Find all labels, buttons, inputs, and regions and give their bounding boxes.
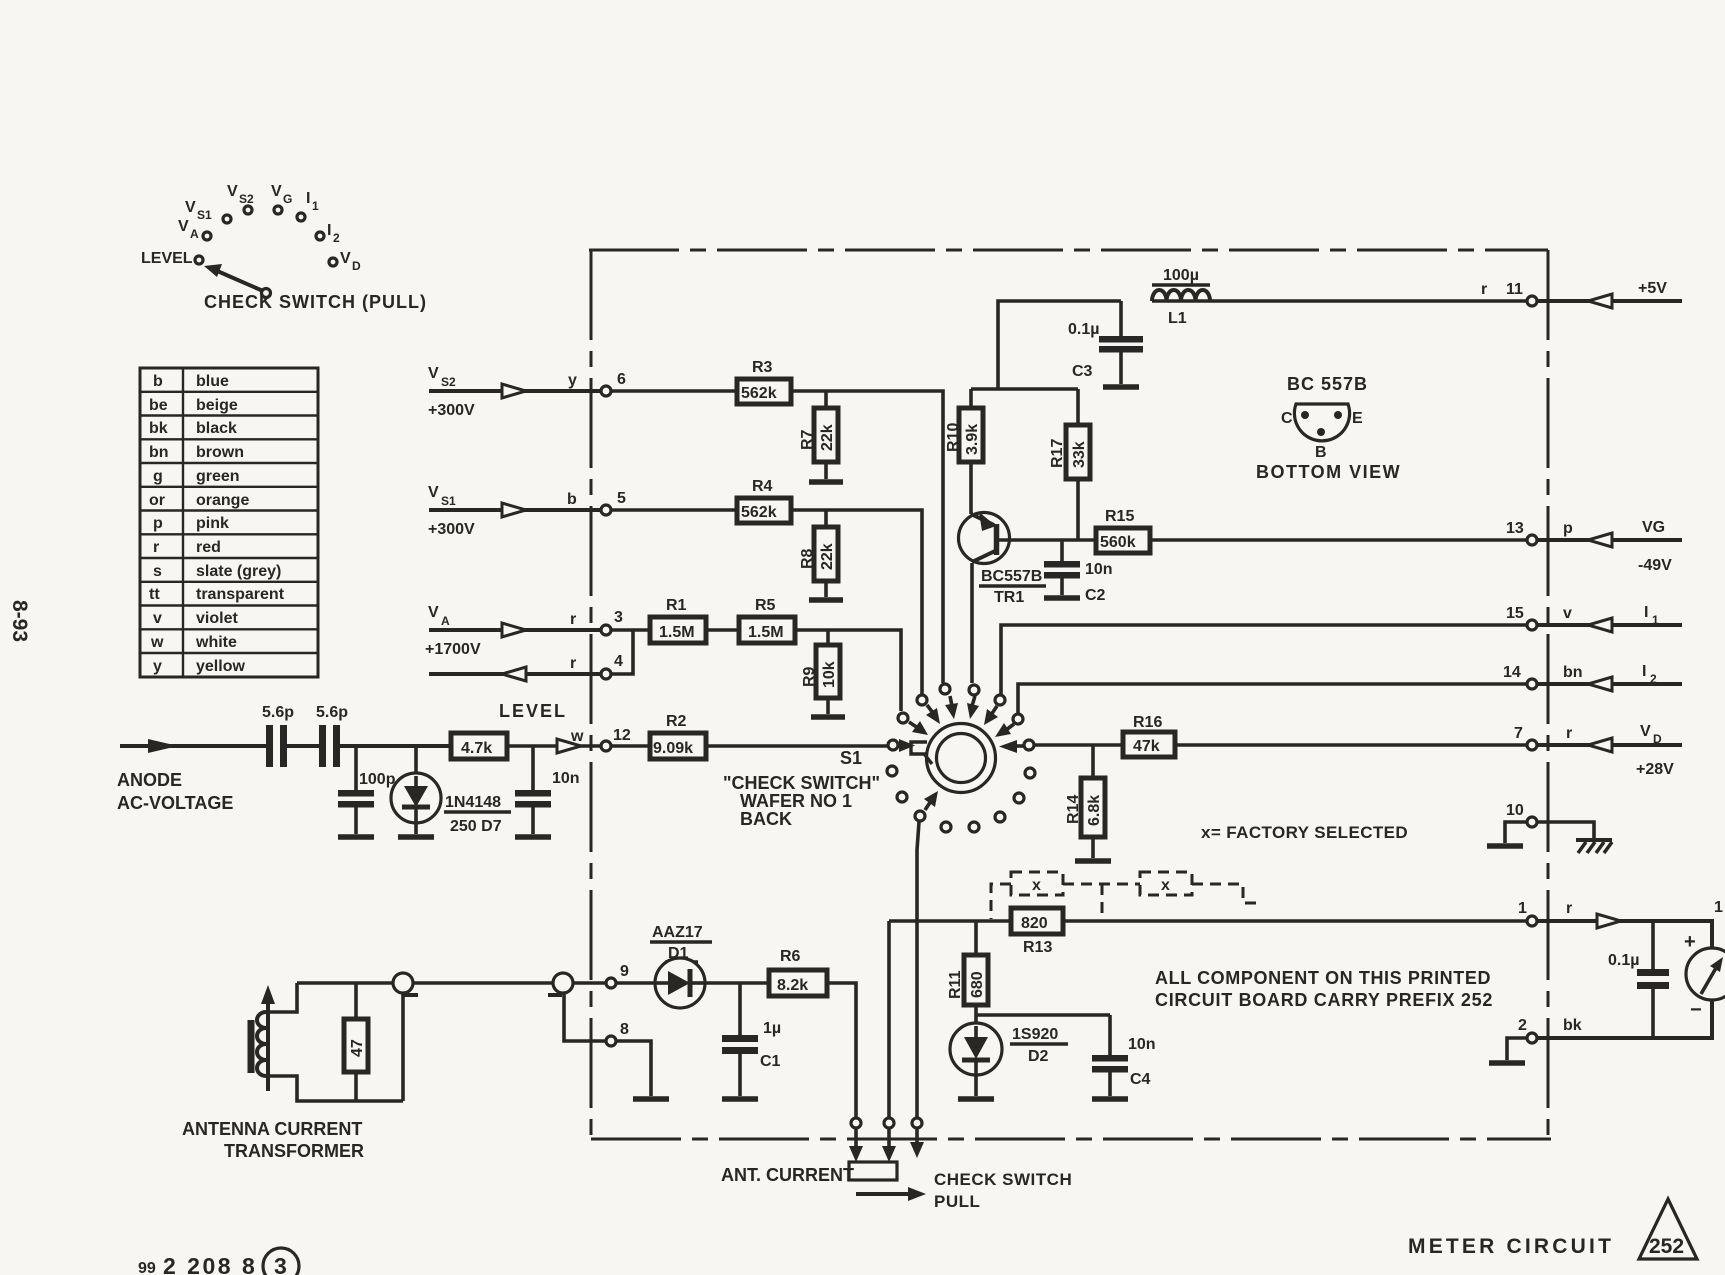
wire 5.6p to 4.7k [340, 744, 451, 748]
node 2 ground [1489, 1038, 1526, 1063]
wire VA input [429, 628, 600, 632]
svg-text:x: x [1032, 877, 1041, 894]
svg-text:14: 14 [1503, 664, 1521, 681]
resistor 4.7k [451, 733, 507, 759]
ground below R14 [1075, 858, 1111, 864]
wire I2 line to switch [1018, 684, 1526, 713]
svg-text:BOTTOM VIEW: BOTTOM VIEW [1256, 462, 1401, 482]
node 1 [1518, 900, 1572, 926]
svg-text:BC557B: BC557B [981, 568, 1042, 585]
capacitor 10n (level) [515, 746, 580, 834]
svg-text:v: v [153, 610, 162, 627]
svg-text:4.7k: 4.7k [461, 740, 492, 757]
S1 contact to ant current switch [915, 791, 938, 821]
svg-text:−: − [1690, 999, 1702, 1021]
resistor R11 680 [947, 921, 988, 1023]
capacitor C3 0.1u [1068, 301, 1143, 384]
svg-text:8.2k: 8.2k [777, 977, 808, 994]
ANTENNA CURRENT TRANSFORMER label [182, 1119, 364, 1161]
svg-text:3: 3 [274, 1253, 287, 1275]
svg-text:A: A [441, 614, 450, 628]
svg-text:562k: 562k [741, 385, 777, 402]
svg-text:p: p [153, 515, 163, 532]
svg-text:D: D [1653, 732, 1662, 746]
input VA +1700V label [425, 604, 481, 658]
antenna transformer arrow [261, 985, 275, 1091]
svg-text:V: V [185, 199, 196, 216]
ANODE AC-VOLTAGE label [117, 770, 233, 813]
svg-text:CHECK SWITCH (PULL): CHECK SWITCH (PULL) [204, 292, 427, 312]
svg-text:252: 252 [1649, 1235, 1684, 1258]
anode AC voltage input wire [120, 744, 267, 748]
I1 input arrow [1538, 604, 1682, 632]
resistor R10 3.9k [945, 389, 983, 514]
wire 4.7k to arrow [507, 744, 600, 748]
wire node8 to ground [617, 1041, 651, 1096]
S1 unused contacts [887, 766, 1035, 832]
ground below 10n [515, 834, 551, 840]
svg-text:bn: bn [1563, 664, 1583, 681]
S1 contact I2 (pin14 net) [995, 714, 1023, 737]
svg-text:560k: 560k [1100, 534, 1136, 551]
svg-text:V: V [271, 183, 282, 200]
svg-text:black: black [196, 420, 237, 437]
svg-text:PULL: PULL [934, 1192, 980, 1211]
svg-text:blue: blue [196, 373, 229, 390]
node 9 [606, 963, 629, 988]
svg-text:R2: R2 [666, 713, 687, 730]
svg-text:1: 1 [1518, 900, 1527, 917]
S1 contact VA (pin3 net) [898, 713, 928, 735]
svg-text:1: 1 [312, 199, 319, 213]
svg-text:g: g [153, 468, 163, 485]
ground below C4 [1092, 1096, 1128, 1102]
+5V rail wire with corner [971, 301, 1526, 389]
wire D2 top to C4 [976, 1013, 1110, 1017]
svg-text:13: 13 [1506, 520, 1524, 537]
arrow pin4 output left [502, 667, 526, 681]
svg-text:TRANSFORMER: TRANSFORMER [224, 1141, 364, 1161]
svg-text:L1: L1 [1168, 310, 1187, 327]
arrow VS2 input [502, 384, 526, 398]
diode D7 1N4148 [391, 746, 511, 835]
page marker 8-93 [8, 600, 31, 642]
svg-text:+5V: +5V [1638, 280, 1667, 297]
node 6 [601, 371, 626, 396]
ground below C1 [722, 1096, 758, 1102]
svg-text:7: 7 [1514, 725, 1523, 742]
svg-text:BACK: BACK [740, 809, 792, 829]
svg-text:4: 4 [614, 653, 623, 670]
resistor R13 820 [1011, 908, 1063, 956]
svg-text:r: r [570, 611, 576, 628]
svg-text:r: r [1481, 281, 1487, 298]
svg-text:E: E [1352, 410, 1363, 427]
resistor R7 22k [799, 391, 838, 479]
svg-text:C2: C2 [1085, 587, 1106, 604]
bushing circle 1 [393, 973, 418, 1101]
anode input filled arrow [148, 739, 178, 753]
svg-text:V: V [1640, 723, 1651, 740]
VG input arrow [1538, 519, 1682, 574]
svg-text:ANTENNA CURRENT: ANTENNA CURRENT [182, 1119, 362, 1139]
svg-text:I: I [306, 190, 310, 207]
svg-text:b: b [567, 491, 577, 508]
wire S1 contact down to pull switch [917, 822, 919, 1117]
svg-text:R15: R15 [1105, 508, 1134, 525]
svg-text:x= FACTORY SELECTED: x= FACTORY SELECTED [1201, 823, 1408, 842]
node 13 [1506, 520, 1573, 545]
wire label y [568, 372, 577, 389]
svg-text:I: I [1644, 604, 1648, 621]
svg-text:tt: tt [149, 586, 160, 603]
svg-text:+28V: +28V [1636, 761, 1674, 778]
wire node10 right ground [1538, 822, 1594, 838]
ground below node8 wire [633, 1096, 669, 1102]
svg-text:11: 11 [1506, 281, 1523, 298]
svg-text:100µ: 100µ [1163, 267, 1199, 284]
svg-text:10n: 10n [1085, 561, 1113, 578]
svg-text:s: s [153, 563, 162, 580]
resistor R6 8.2k [769, 948, 827, 996]
S1 contact VS2 (pin6 net) [940, 684, 958, 719]
node 11 [1481, 281, 1537, 306]
node 7 [1514, 725, 1572, 750]
input VS1 +300V label [428, 484, 475, 538]
pull direction arrow [856, 1187, 926, 1201]
ground below R7 [809, 479, 843, 485]
svg-text:S1: S1 [197, 208, 212, 222]
svg-text:CHECK SWITCH: CHECK SWITCH [934, 1170, 1072, 1189]
wire node10 left ground [1505, 822, 1526, 843]
svg-text:WAFER NO 1: WAFER NO 1 [740, 791, 852, 811]
svg-text:10: 10 [1506, 802, 1524, 819]
svg-text:C: C [1281, 410, 1293, 427]
svg-text:8: 8 [620, 1021, 629, 1038]
antenna transformer winding [257, 983, 403, 1101]
ground below R8 [809, 597, 843, 603]
wire R16 to node 7 [1175, 743, 1526, 747]
node 3 [601, 609, 623, 635]
svg-text:R13: R13 [1023, 939, 1052, 956]
sheet number 99 2 208 8(3) [138, 1248, 299, 1275]
svg-text:C3: C3 [1072, 363, 1093, 380]
svg-text:1µ: 1µ [763, 1020, 781, 1037]
svg-text:-49V: -49V [1638, 557, 1672, 574]
svg-text:V: V [428, 484, 439, 501]
svg-text:AC-VOLTAGE: AC-VOLTAGE [117, 793, 233, 813]
wire node6 to R3 [612, 389, 737, 393]
wire TR1 collector to switch contact [970, 563, 974, 683]
svg-text:100p: 100p [359, 771, 396, 788]
chassis ground right of node10 [1576, 840, 1612, 853]
METER CIRCUIT title [1408, 1235, 1614, 1258]
svg-text:be: be [149, 397, 168, 414]
svg-text:R11: R11 [947, 970, 964, 999]
wire between 5.6p caps [287, 744, 320, 748]
meter M [1684, 899, 1725, 1021]
svg-text:33k: 33k [1071, 441, 1088, 468]
S1 contact VS1 (pin5 net) [917, 695, 940, 724]
svg-text:R5: R5 [755, 597, 776, 614]
resistor R4 562k [737, 478, 791, 523]
svg-text:2 208 8: 2 208 8 [163, 1253, 257, 1275]
svg-text:red: red [196, 539, 221, 556]
svg-text:+: + [1684, 931, 1696, 953]
capacitor 5.6p first [262, 704, 294, 767]
arrow VS1 input [502, 503, 526, 517]
svg-text:R1: R1 [666, 597, 687, 614]
svg-text:b: b [153, 373, 163, 390]
svg-text:V: V [428, 604, 439, 621]
svg-text:TR1: TR1 [994, 589, 1024, 606]
x factory selected note [1201, 823, 1408, 842]
svg-text:V: V [178, 218, 189, 235]
wire R6 to pull switch [827, 983, 856, 1117]
wire R1 to R5 [706, 628, 739, 632]
capacitor 100p [338, 746, 396, 834]
resistor R3 562k [737, 359, 791, 404]
svg-text:LEVEL: LEVEL [141, 250, 193, 267]
svg-text:2: 2 [333, 231, 340, 245]
svg-text:562k: 562k [741, 504, 777, 521]
ground below C2 [1044, 595, 1080, 601]
svg-text:w: w [570, 728, 584, 745]
svg-text:v: v [1563, 605, 1572, 622]
wire I1 line to switch [1001, 625, 1526, 694]
node 15 [1506, 605, 1572, 630]
svg-text:680: 680 [969, 971, 986, 998]
svg-text:orange: orange [196, 492, 249, 509]
wire VS1 input [429, 508, 600, 512]
svg-text:I: I [327, 222, 331, 239]
svg-text:820: 820 [1021, 915, 1048, 932]
svg-text:5.6p: 5.6p [316, 704, 348, 721]
svg-text:5.6p: 5.6p [262, 704, 294, 721]
svg-text:yellow: yellow [196, 658, 245, 675]
svg-text:ALL COMPONENT ON THIS PRINTED: ALL COMPONENT ON THIS PRINTED [1155, 968, 1491, 988]
diode D1 AAZ17 [650, 924, 712, 1008]
svg-text:beige: beige [196, 397, 238, 414]
resistor 47 [344, 983, 368, 1101]
svg-text:12: 12 [613, 727, 631, 744]
check switch position diagram: dots [195, 206, 337, 266]
resistor R1 1.5M [650, 597, 706, 643]
svg-text:1: 1 [1714, 899, 1723, 916]
svg-text:green: green [196, 468, 240, 485]
rotary switch S1 rotor [899, 724, 1025, 793]
svg-text:LEVEL: LEVEL [499, 701, 567, 721]
svg-text:22k: 22k [819, 424, 836, 451]
svg-text:y: y [568, 372, 577, 389]
wire R13 to node 1 [1063, 919, 1526, 923]
wire label w [570, 728, 584, 745]
svg-text:2: 2 [1650, 672, 1657, 686]
svg-text:R7: R7 [799, 429, 816, 450]
svg-text:B: B [1315, 444, 1327, 461]
svg-text:VG: VG [1642, 519, 1665, 536]
wire R3 to switch corner [791, 391, 943, 683]
wire switch output to R16 [1035, 743, 1123, 747]
svg-text:8-93: 8-93 [8, 600, 31, 642]
svg-text:R9: R9 [801, 666, 818, 687]
svg-text:3: 3 [614, 609, 623, 626]
wire label r (pin3) [570, 611, 576, 628]
wire node2 to meter [1538, 1000, 1712, 1038]
drawing number triangle 252 [1639, 1199, 1697, 1259]
svg-text:bn: bn [149, 444, 169, 461]
svg-text:6: 6 [617, 371, 626, 388]
wire label r (pin4) [570, 655, 576, 672]
svg-text:ANT. CURRENT: ANT. CURRENT [721, 1165, 854, 1185]
svg-text:0.1µ: 0.1µ [1608, 952, 1639, 969]
resistor R5 1.5M [739, 597, 795, 643]
svg-text:+300V: +300V [428, 521, 475, 538]
svg-text:250 D7: 250 D7 [450, 818, 502, 835]
wire VS2 input [429, 389, 600, 393]
S1 switch labels [723, 748, 880, 829]
svg-text:1.5M: 1.5M [748, 624, 784, 641]
capacitor C1 1u [722, 983, 781, 1096]
svg-text:S1: S1 [840, 748, 862, 768]
svg-text:r: r [570, 655, 576, 672]
svg-text:R8: R8 [799, 548, 816, 569]
wire R2 to switch contact [706, 744, 887, 748]
ANT CURRENT label [721, 1165, 854, 1185]
ground below C3 [1103, 384, 1139, 390]
svg-text:+300V: +300V [428, 402, 475, 419]
I2 input arrow [1538, 663, 1682, 691]
svg-text:BC 557B: BC 557B [1287, 374, 1368, 394]
svg-text:D2: D2 [1028, 1048, 1049, 1065]
check switch position labels [141, 183, 427, 312]
S1 contact TR1 collector [967, 685, 979, 719]
arrow VA input [502, 623, 526, 637]
bushing circle 2 [548, 973, 605, 1041]
dashed wires around factory boxes [991, 884, 1262, 919]
svg-text:R16: R16 [1133, 714, 1162, 731]
resistor R2 9.09k [650, 713, 706, 759]
svg-text:pink: pink [196, 515, 229, 532]
svg-text:transparent: transparent [196, 586, 285, 603]
CHECK SWITCH PULL label [934, 1170, 1072, 1211]
svg-text:C4: C4 [1130, 1071, 1151, 1088]
svg-text:r: r [1566, 900, 1572, 917]
svg-text:V: V [428, 365, 439, 382]
colour code legend table [140, 368, 318, 677]
wire R5 to switch corner [795, 630, 901, 711]
svg-text:R3: R3 [752, 359, 773, 376]
svg-text:1N4148: 1N4148 [445, 794, 501, 811]
svg-text:violet: violet [196, 610, 238, 627]
svg-text:9.09k: 9.09k [653, 740, 693, 757]
ground below R9 [811, 714, 845, 720]
svg-text:y: y [153, 658, 162, 675]
svg-text:15: 15 [1506, 605, 1524, 622]
capacitor C4 10n [1092, 1015, 1156, 1096]
svg-text:R14: R14 [1065, 795, 1082, 824]
arrow level to pin12 [557, 739, 581, 753]
S1 contact LEVEL (pin12 net) [888, 740, 898, 750]
wire TR1 base to R15 [997, 538, 1096, 542]
node 12 [601, 727, 631, 751]
node 8 [606, 1021, 629, 1046]
antenna transformer core [248, 1020, 255, 1073]
wire R4 to switch corner [791, 510, 922, 694]
svg-text:3.9k: 3.9k [964, 424, 981, 455]
svg-text:R6: R6 [780, 948, 801, 965]
svg-text:w: w [150, 634, 164, 651]
svg-text:1.5M: 1.5M [659, 624, 695, 641]
wire pin1 line left segment [889, 919, 1011, 923]
input VS2 +300V label [428, 365, 475, 419]
svg-text:10n: 10n [552, 770, 580, 787]
svg-text:white: white [195, 634, 237, 651]
capacitor 0.1u meter [1608, 921, 1669, 1038]
check switch rotor arrow [204, 264, 271, 298]
+5V input arrow [1538, 280, 1682, 308]
svg-text:or: or [149, 492, 165, 509]
svg-text:r: r [153, 539, 159, 556]
inductor L1 100u [1152, 267, 1210, 327]
LEVEL label [499, 701, 567, 721]
svg-text:47k: 47k [1133, 738, 1160, 755]
svg-text:p: p [1563, 520, 1573, 537]
svg-text:I: I [1642, 663, 1646, 680]
wire node4 joins node3 line [612, 630, 633, 674]
transistor TR1 BC557B [959, 512, 1047, 606]
node 4 [601, 653, 623, 679]
ground left of node10 [1487, 843, 1523, 849]
resistor R9 10k [801, 630, 840, 714]
PCB border bottom [591, 1138, 1551, 1141]
svg-text:A: A [190, 227, 199, 241]
node 2 [1518, 1017, 1582, 1043]
wire meter top [1621, 921, 1712, 948]
resistor R16 47k [1123, 714, 1175, 757]
dashed factory box 2 [1140, 872, 1192, 895]
ground below 100p [338, 834, 374, 840]
resistor R8 22k [799, 510, 838, 597]
PCB border right [1547, 250, 1550, 1139]
svg-text:2: 2 [1518, 1017, 1527, 1034]
svg-text:5: 5 [617, 490, 626, 507]
svg-text:CIRCUIT BOARD CARRY PREFIX 252: CIRCUIT BOARD CARRY PREFIX 252 [1155, 990, 1493, 1010]
node 5 [601, 490, 626, 515]
node 14 [1503, 664, 1583, 689]
BC557B bottom view [1256, 374, 1401, 482]
node 10 [1506, 802, 1537, 827]
svg-text:R4: R4 [752, 478, 773, 495]
wire label b [567, 491, 577, 508]
svg-text:brown: brown [196, 444, 244, 461]
svg-text:slate (grey): slate (grey) [196, 563, 281, 580]
svg-text:99: 99 [138, 1260, 156, 1275]
PCB border top [589, 249, 1548, 252]
wire node5 to R4 [612, 508, 737, 512]
wire pin4 output [429, 672, 600, 676]
svg-text:R17: R17 [1049, 439, 1066, 468]
resistor R17 33k [1049, 389, 1090, 540]
svg-text:x: x [1161, 877, 1170, 894]
svg-text:C1: C1 [760, 1053, 781, 1070]
svg-text:"CHECK SWITCH": "CHECK SWITCH" [723, 773, 880, 793]
svg-text:47: 47 [349, 1039, 366, 1057]
svg-text:S1: S1 [441, 494, 456, 508]
pull switch slider box [849, 1162, 897, 1180]
svg-text:10n: 10n [1128, 1036, 1156, 1053]
S1 contact output (VD net) [1024, 740, 1034, 750]
